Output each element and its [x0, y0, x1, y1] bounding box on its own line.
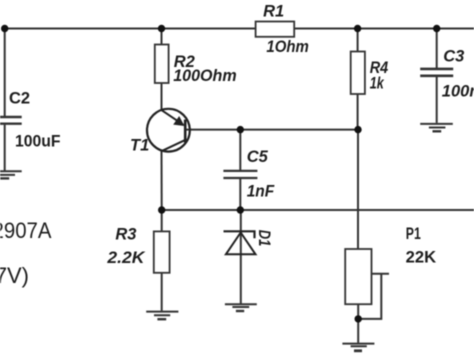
wire P1 bottom to ground [357, 304, 359, 343]
ground for R3 [146, 312, 178, 320]
resistor R4 [351, 52, 389, 95]
wire C5 bottom drop [239, 179, 241, 210]
svg-text:100Ohm: 100Ohm [173, 67, 237, 85]
wire D1 column [240, 210, 242, 304]
transistor T1 [130, 109, 190, 155]
potentiometer P1 [345, 225, 436, 304]
svg-text:1nF: 1nF [247, 183, 275, 201]
svg-text:2.2K: 2.2K [106, 249, 145, 267]
svg-text:1Ohm: 1Ohm [266, 38, 309, 56]
junction dot R2/top rail [158, 25, 165, 32]
wire top supply rail [5, 28, 474, 30]
junction dot R4/top rail [354, 25, 361, 32]
resistor R1 [256, 3, 309, 56]
resistor R3 [106, 225, 169, 272]
resistor R2 [155, 45, 237, 86]
svg-text:22K: 22K [406, 248, 437, 266]
wire C3 top drop [436, 29, 438, 69]
svg-text:2907A: 2907A [0, 218, 52, 243]
svg-text:100nF: 100nF [442, 83, 474, 101]
wire collector rail [162, 209, 474, 211]
svg-text:C2: C2 [9, 90, 30, 108]
ground for C3 [420, 124, 453, 131]
wire base net horizontal [185, 129, 358, 131]
capacitor C2 [0, 90, 61, 151]
wire P1 top drop [357, 130, 359, 249]
svg-text:R3: R3 [115, 225, 136, 243]
svg-text:P1: P1 [406, 225, 421, 243]
svg-text:T1: T1 [130, 137, 149, 155]
svg-text:R1: R1 [263, 3, 284, 21]
wire R4 to base net [357, 94, 359, 130]
junction dot C3/top rail [433, 25, 440, 32]
wire R2 to transistor [161, 83, 163, 111]
junction dot collector/R3 [158, 206, 165, 213]
ground for P1 [342, 344, 374, 351]
capacitor C5 [223, 148, 275, 201]
wire C5 top drop [239, 130, 241, 170]
junction dot base/C5 [237, 126, 244, 133]
wire R3 to ground [161, 273, 163, 311]
zener diode D1 [224, 230, 273, 255]
svg-text:100uF: 100uF [15, 133, 61, 151]
svg-text:1k: 1k [370, 75, 385, 93]
wire C2 to ground [4, 125, 6, 171]
wire R4 top drop [357, 29, 359, 52]
svg-text:C3: C3 [443, 48, 464, 66]
svg-text:D1: D1 [255, 230, 273, 247]
wire R2 top drop [161, 29, 163, 45]
junction dot P1 bottom/wiper [355, 315, 362, 322]
svg-text:(7V): (7V) [0, 263, 29, 288]
wire C3 to ground [436, 77, 438, 123]
junction dot base/R4/P1 [354, 126, 361, 133]
ground for D1 [225, 304, 257, 311]
junction dot C5/D1 [237, 206, 244, 213]
wire P1 wiper [358, 274, 389, 319]
wire R3 top drop [161, 210, 163, 231]
svg-text:C5: C5 [247, 148, 269, 166]
wire collector drop [161, 151, 163, 210]
capacitor C3 [420, 48, 474, 101]
wire left column to C2 [4, 29, 6, 117]
ground for C2 [0, 171, 22, 178]
junction dot top-left [1, 25, 8, 32]
